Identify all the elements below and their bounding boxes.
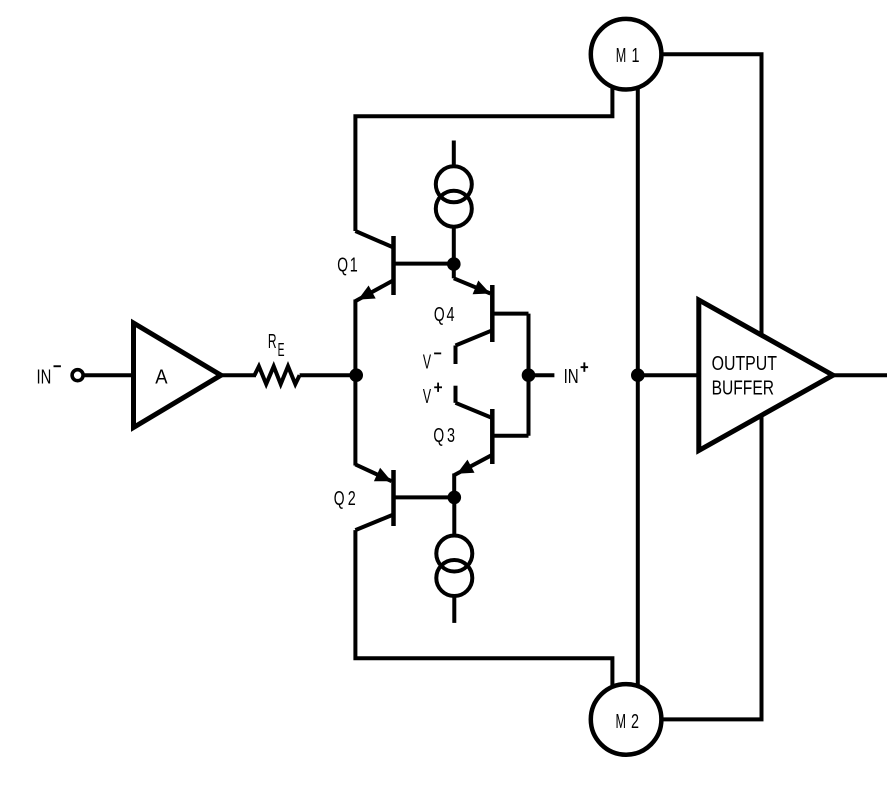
motor symbol M2 (bottom circle) [591,684,662,755]
node E (output buffer input junction dot) [631,368,645,382]
Q3 emitter arrowhead [457,460,475,474]
node B (Q1 base junction dot) [447,257,461,271]
op-amp A (input amplifier triangle) [134,323,222,428]
svg-text:IN: IN [564,366,579,388]
svg-text:Q: Q [337,255,348,277]
node A (RE / emitter junction dot) [349,368,363,382]
wire: resistor RE to main node [300,373,357,377]
svg-text:OUTPUT: OUTPUT [712,353,777,375]
Q4 emitter arrowhead [473,281,491,295]
svg-text:Q: Q [334,488,345,510]
node D (IN+ junction dot) [522,368,536,382]
wire: emitter column Q1-node-Q2 [353,300,357,466]
svg-text:Q: Q [434,304,445,326]
transistor Q4 [454,264,529,364]
transistor Q1 [355,231,453,301]
wire: buffer output [833,373,887,377]
transistor Q2 [355,464,454,530]
Q2 emitter arrowhead [374,468,392,482]
svg-text:E: E [278,339,285,360]
svg-text:M: M [616,711,627,733]
svg-text:1: 1 [632,45,640,67]
Q1 emitter arrowhead [358,286,376,300]
wire: right feedback loop M1 right to M2 right [626,54,762,719]
transistor Q3 [454,386,528,498]
wire: IN- terminal to amp A [78,373,134,377]
wire: output node to buffer input [638,373,699,377]
svg-text:IN: IN [37,367,52,389]
wire: IN+ node stub [529,373,555,377]
wire: bottom rail from Q2 collector column to M2 left leg [355,530,612,714]
current source I2 (bottom) [436,497,472,623]
terminal: IN- input circle [72,370,83,381]
svg-text:4: 4 [447,304,455,326]
svg-text:1: 1 [350,255,358,277]
svg-text:BUFFER: BUFFER [712,377,774,399]
svg-text:Q: Q [433,425,444,447]
svg-text:M: M [616,45,627,67]
svg-text:V: V [423,386,432,408]
wire: IN+ base column Q4 to Q3 [527,314,531,436]
current source I1 (top) [436,141,472,265]
node C (Q2 base junction dot) [448,491,462,505]
resistor R_E [255,366,300,384]
svg-text:A: A [155,367,168,389]
svg-text:R: R [268,331,277,353]
wire: amp A output to resistor RE [219,373,256,377]
motor symbol M1 (top circle) [591,19,662,90]
svg-text:3: 3 [447,425,455,447]
svg-text:V: V [423,351,432,373]
svg-text:2: 2 [348,488,356,510]
wire: long middle vertical M1 bottom to M2 top through output node [636,60,640,714]
svg-text:2: 2 [631,711,639,733]
op-amp U2 OUTPUT BUFFER triangle [699,300,833,451]
wire: top rail from Q1 collector column to M1 left leg [355,60,612,231]
